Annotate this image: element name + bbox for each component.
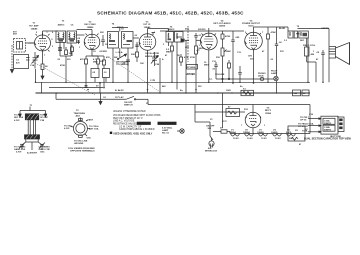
svg-text:R11: R11 — [280, 51, 285, 53]
wire between T4 boxes — [119, 28, 121, 32]
svg-text:.05: .05 — [212, 69, 216, 71]
svg-text:3: 3 — [246, 117, 248, 119]
dashed AVC line — [187, 26, 189, 62]
wire T3 drops — [59, 42, 61, 56]
AC plug P1 — [209, 138, 214, 149]
svg-text:A.C.: A.C. — [208, 147, 213, 150]
bus wire y89.5 — [49, 87, 103, 89]
svg-text:OF SPKR: OF SPKR — [298, 126, 308, 128]
tube V3 12BE6 — [139, 29, 156, 59]
svg-text:SEC C1A: SEC C1A — [14, 116, 24, 119]
svg-text:V3: V3 — [146, 21, 149, 23]
svg-text:10%: 10% — [248, 56, 252, 58]
svg-text:10K: 10K — [140, 63, 144, 65]
svg-text:330 680: 330 680 — [187, 74, 195, 76]
rod antenna T1 detail — [19, 105, 47, 150]
label V4 — [213, 19, 230, 27]
svg-text:470K: 470K — [271, 31, 277, 34]
wire antenna to V1 — [29, 42, 35, 44]
label T5 — [168, 27, 175, 32]
svg-text:.05: .05 — [316, 52, 320, 54]
svg-text:1: 1 — [79, 47, 81, 49]
tube V6 35W4 rectifier — [245, 105, 261, 134]
svg-text:R7 820K: R7 820K — [187, 67, 196, 69]
svg-text:12.6V: 12.6V — [275, 138, 281, 140]
svg-text:2: 2 — [52, 46, 54, 48]
svg-text:4: 4 — [260, 116, 262, 119]
svg-text:220: 220 — [67, 59, 71, 61]
svg-text:OSCILLATOR: OSCILLATOR — [145, 52, 159, 55]
capacitor C9 — [126, 59, 130, 61]
svg-text:C1B: C1B — [40, 120, 45, 122]
resistor R6 left of V3 — [131, 50, 139, 62]
svg-text:SWITCH: SWITCH — [124, 105, 133, 107]
svg-text:COIL VIEWED FROM END: COIL VIEWED FROM END — [68, 148, 95, 150]
svg-text:TO CHASSIS: TO CHASSIS — [116, 63, 129, 66]
svg-text:50C5: 50C5 — [286, 132, 292, 134]
resistor R14 at 104 — [103, 56, 105, 60]
svg-text:X1: X1 — [210, 119, 213, 121]
svg-text:MEG: MEG — [204, 65, 209, 67]
svg-text:C.7B: C.7B — [150, 80, 155, 82]
capacitor C4 — [77, 38, 81, 44]
svg-text:3.2: 3.2 — [284, 40, 288, 42]
svg-text:7: 7 — [44, 55, 46, 57]
extra wires and labels for density — [36, 30, 262, 94]
IF transformer T4 (box1) — [108, 32, 119, 49]
resistor R13 box above rectifier — [226, 106, 240, 117]
pin ticks V2 — [86, 34, 88, 36]
resistor R3 below V2 — [80, 56, 98, 88]
svg-text:L-10-A: L-10-A — [116, 51, 123, 54]
leads to capacitor box — [308, 118, 321, 133]
svg-text:ANT: ANT — [13, 33, 18, 36]
svg-text:C6: C6 — [93, 51, 97, 53]
capacitor C6 symbol — [101, 35, 105, 46]
svg-text:MEG: MEG — [93, 62, 98, 64]
svg-text:47: 47 — [165, 54, 168, 57]
svg-text:RESISTANCE VALUES: RESISTANCE VALUES — [113, 122, 138, 125]
svg-text:12BE6: 12BE6 — [257, 132, 264, 134]
labels capacitor box — [298, 114, 341, 138]
svg-text:6: 6 — [52, 32, 54, 34]
svg-text:PER VOLT METER AT 117 V.: PER VOLT METER AT 117 V. — [113, 117, 143, 120]
antenna loop L1 — [12, 39, 35, 70]
bus wire y93 — [36, 92, 311, 94]
IF transformer T5 (box2) — [175, 32, 184, 43]
svg-text:ON-OFF: ON-OFF — [124, 102, 133, 104]
svg-text:UNLESS OTHERWISE NOTED:: UNLESS OTHERWISE NOTED: — [113, 111, 146, 113]
wire bus V2 area — [35, 69, 37, 82]
dashed gang link — [33, 62, 95, 95]
svg-text:& R.F.: & R.F. — [14, 120, 20, 122]
svg-text:CAPACITORS ABOVE 1 IN MMFD: CAPACITORS ABOVE 1 IN MMFD — [119, 128, 155, 131]
svg-text:C16: C16 — [309, 114, 314, 116]
svg-text:22K: 22K — [100, 32, 104, 34]
svg-text:5: 5 — [36, 32, 38, 34]
label T3 — [58, 21, 75, 27]
svg-text:1ST I.F.: 1ST I.F. — [143, 24, 151, 26]
svg-text:12.6V: 12.6V — [233, 138, 239, 140]
field coil L2 — [305, 38, 317, 82]
svg-text:30MFD: 30MFD — [324, 123, 332, 125]
wire to pilot lamp — [216, 78, 274, 80]
svg-text:470: 470 — [80, 58, 84, 61]
svg-text:V6: V6 — [267, 108, 270, 110]
X2 box — [288, 126, 305, 141]
svg-text:.01: .01 — [198, 35, 202, 37]
capacitor C17 — [239, 74, 241, 82]
svg-text:12BA6: 12BA6 — [243, 131, 251, 134]
labels T1 detail — [14, 114, 50, 155]
label V1 — [29, 23, 53, 42]
scattered value labels — [30, 28, 319, 153]
svg-text:47: 47 — [316, 58, 319, 61]
svg-text:104V: 104V — [226, 89, 231, 92]
svg-text:1: 1 — [313, 51, 315, 53]
svg-text:T3: T3 — [62, 21, 65, 23]
svg-text:& R.F.: & R.F. — [64, 128, 70, 130]
resistor R1 below V1 — [41, 62, 48, 76]
svg-text:470K: 470K — [60, 64, 65, 67]
voltage labels on buses — [115, 80, 184, 99]
svg-text:V1: V1 — [33, 23, 36, 25]
volume control R10 — [215, 44, 231, 76]
svg-text:C5: C5 — [71, 25, 75, 27]
svg-text:AVC: AVC — [185, 28, 190, 31]
label V5 — [242, 20, 261, 27]
capacitor C8 left of V3 — [135, 42, 138, 50]
dial lamp — [162, 126, 184, 134]
wire T4 drops — [112, 48, 114, 82]
IF transformer T3 (box 1) — [56, 31, 66, 43]
svg-text:B+: B+ — [180, 90, 184, 92]
resistor X1 box on B- line — [241, 89, 254, 96]
svg-text:35V: 35V — [198, 86, 202, 88]
svg-text:VOLUME: VOLUME — [215, 74, 225, 76]
line 117VAC — [185, 77, 187, 94]
dual capacitor box C16 — [321, 116, 344, 134]
tube V1 12BA6 — [35, 33, 51, 62]
svg-text:OSC: OSC — [87, 138, 92, 140]
svg-text:C2: C2 — [16, 60, 20, 62]
svg-text:GANG C1B: GANG C1B — [39, 148, 50, 151]
svg-text:RECT.: RECT. — [265, 110, 272, 112]
svg-text:DUAL SECTION CAPACITOR TOP VIE: DUAL SECTION CAPACITOR TOP VIEW — [304, 137, 351, 140]
caption coil viewed — [68, 148, 95, 153]
svg-text:K=1000 Ω: K=1000 Ω — [137, 123, 148, 125]
svg-text:.02: .02 — [134, 35, 138, 37]
svg-text:NO. 51: NO. 51 — [162, 133, 170, 135]
capacitor C18 on B- segment — [85, 86, 88, 88]
svg-text:50MFD: 50MFD — [324, 130, 332, 132]
svg-text:.02 MFD: .02 MFD — [99, 51, 107, 53]
capacitor C15 near speaker — [316, 50, 325, 58]
svg-text:470K: 470K — [225, 35, 231, 38]
AC switch S1b — [206, 126, 215, 141]
label V2 — [84, 21, 96, 29]
label V3 — [143, 21, 159, 58]
phono jack J1 — [260, 77, 264, 81]
ground at bus — [99, 93, 102, 104]
svg-text:T2: T2 — [297, 26, 300, 28]
svg-text:5: 5 — [51, 39, 53, 41]
svg-text:LINE A.C. VOLTAGE.: LINE A.C. VOLTAGE. — [113, 119, 135, 122]
top rail above V3 V4 — [148, 28, 169, 30]
label field coil — [303, 45, 316, 47]
svg-text:VOLTAGES MEASURED WITH 20,000: VOLTAGES MEASURED WITH 20,000 OHMS — [113, 114, 161, 117]
svg-text:A=SHORT: A=SHORT — [27, 152, 38, 155]
svg-text:1: 1 — [46, 32, 48, 34]
svg-text:47: 47 — [299, 143, 302, 146]
svg-text:BLUE: BLUE — [279, 28, 285, 30]
svg-text:T4: T4 — [112, 23, 115, 26]
labels T6 detail — [64, 119, 100, 145]
svg-text:50C5: 50C5 — [248, 26, 254, 28]
capacitor C12 — [215, 62, 217, 65]
on-off switch S1 — [56, 96, 310, 106]
svg-text:C1A: C1A — [30, 64, 35, 67]
svg-text:PILOT: PILOT — [271, 71, 278, 73]
wire T5 drops — [168, 42, 170, 46]
svg-text:12AV6: 12AV6 — [219, 25, 226, 28]
svg-text:4.7K: 4.7K — [184, 56, 189, 59]
label BLUE — [279, 26, 329, 30]
svg-text:T2: T2 — [76, 110, 79, 112]
svg-text:C1B: C1B — [155, 64, 160, 66]
resistor R11 right of V5 — [267, 31, 277, 44]
svg-text:117V: 117V — [222, 121, 227, 123]
svg-text:ADJ: ADJ — [76, 115, 81, 118]
svg-text:V2: V2 — [89, 21, 92, 23]
ground below V1 — [41, 76, 44, 79]
grid cap C7 — [152, 32, 154, 35]
resistor R7 — [166, 42, 174, 56]
label T4 — [112, 23, 124, 55]
svg-text:12BA6: 12BA6 — [31, 28, 39, 31]
wire to rectifier — [195, 111, 245, 113]
notes text block — [110, 111, 177, 135]
capacitor C3a — [58, 48, 62, 50]
svg-text:470: 470 — [16, 61, 20, 64]
heater V5f — [286, 130, 296, 140]
capacitor C2 box — [14, 55, 30, 69]
svg-text:X2: X2 — [295, 130, 298, 132]
svg-text:3: 3 — [163, 44, 165, 46]
svg-text:B- 84.5V: B- 84.5V — [115, 89, 124, 92]
capacitor C5 under T3 — [58, 45, 62, 52]
svg-text:V4: V4 — [221, 19, 224, 22]
svg-text:84V: 84V — [162, 85, 166, 88]
pin ticks V1 — [36, 34, 38, 36]
pin ticks V4 — [202, 34, 204, 36]
title — [97, 11, 244, 16]
resistor R4 below V2 — [97, 56, 105, 69]
svg-text:DET.-1ST AUDIO: DET.-1ST AUDIO — [213, 22, 230, 25]
svg-text:OSC: OSC — [40, 152, 45, 154]
resistor R9 — [221, 31, 231, 44]
resistor R2 under T3 — [71, 45, 74, 56]
svg-text:47: 47 — [262, 50, 265, 53]
resistor R16 — [187, 65, 198, 70]
svg-text:S1: S1 — [103, 97, 106, 99]
svg-text:47K: 47K — [106, 56, 110, 59]
wire plug to chain — [194, 104, 196, 122]
svg-text:12BA6: 12BA6 — [229, 131, 237, 134]
diode CR1 — [181, 39, 190, 77]
trimmer C3 left — [19, 142, 26, 150]
wire T4 to V3 — [133, 37, 139, 39]
svg-text:12BE6: 12BE6 — [87, 27, 94, 29]
heater V4f — [271, 129, 282, 140]
trimmer C6 right — [38, 142, 45, 150]
svg-text:.05: .05 — [57, 59, 61, 61]
under-can resistor cluster — [65, 47, 73, 55]
svg-text:OPPOSITE TERMINALS: OPPOSITE TERMINALS — [70, 150, 95, 153]
svg-text:MEG: MEG — [199, 48, 204, 50]
variable capacitor C1B — [151, 52, 158, 66]
pin ticks V5 — [246, 33, 248, 35]
bus wire B- segment — [41, 82, 43, 93]
svg-text:SCHEMATIC DIAGRAM 451B, 451C,: SCHEMATIC DIAGRAM 451B, 451C, 452B, 452C… — [97, 11, 244, 16]
svg-text:USED ON MODEL 453B, 453C ONLY: USED ON MODEL 453B, 453C ONLY — [113, 132, 153, 135]
svg-text:V5: V5 — [250, 20, 253, 22]
svg-text:T.C.: T.C. — [209, 79, 213, 81]
svg-text:R.F. AMP: R.F. AMP — [29, 25, 39, 28]
svg-text:PRI: PRI — [296, 34, 300, 36]
svg-text:12.6V: 12.6V — [247, 138, 253, 140]
svg-text:OSC.CONV.: OSC.CONV. — [84, 24, 96, 26]
svg-text:CR1: CR1 — [185, 47, 190, 49]
heater V1f — [229, 130, 240, 140]
svg-text:SEC: SEC — [300, 40, 305, 42]
wire V4 to V5 grid — [233, 30, 244, 32]
svg-text:455KC: 455KC — [168, 28, 175, 31]
svg-text:ANT COIL: ANT COIL — [89, 127, 100, 130]
tube V5 50C5 — [245, 27, 263, 58]
oscillator coil T6 detail circle — [71, 110, 91, 138]
heater V2f — [243, 130, 254, 140]
svg-text:.05: .05 — [92, 72, 96, 74]
svg-text:ON-OFF: ON-OFF — [206, 126, 215, 128]
svg-text:CAPACITY/WATT: CAPACITY/WATT — [158, 122, 177, 125]
svg-text:117V AC: 117V AC — [115, 96, 124, 99]
svg-text:270K: 270K — [190, 57, 195, 59]
speaker LS1 — [329, 43, 350, 65]
caption dual capacitor — [304, 137, 351, 140]
svg-text:7: 7 — [262, 32, 264, 34]
resistor pair near output — [293, 90, 310, 96]
wire above V2 — [91, 30, 93, 32]
svg-text:68: 68 — [45, 66, 48, 68]
ground (antenna) — [10, 70, 13, 73]
wire top rail left — [42, 31, 44, 35]
resistor R17 — [228, 60, 230, 63]
svg-text:R13: R13 — [244, 109, 249, 111]
label V6 — [265, 108, 272, 115]
svg-text:1/2 W. CAPACITY OF: 1/2 W. CAPACITY OF — [119, 126, 142, 129]
svg-text:1: 1 — [199, 45, 201, 47]
svg-text:ANT: ANT — [89, 119, 94, 122]
svg-text:22K: 22K — [131, 54, 135, 56]
svg-text:INTERLOCK: INTERLOCK — [205, 151, 218, 153]
svg-text:1: 1 — [264, 125, 266, 127]
svg-text:455KC: 455KC — [58, 24, 65, 27]
switch SW1 diagonal — [119, 54, 127, 59]
svg-text:6.3V DIAL: 6.3V DIAL — [162, 126, 173, 129]
wire top rail right — [254, 26, 289, 28]
svg-text:0V: 0V — [96, 86, 99, 88]
junction dots on buses — [35, 82, 324, 94]
svg-text:35W4: 35W4 — [265, 112, 271, 115]
svg-text:12.6V: 12.6V — [261, 138, 267, 140]
svg-text:C13: C13 — [237, 52, 242, 54]
svg-text:.005: .005 — [235, 37, 240, 39]
svg-text:TRACKING: TRACKING — [74, 112, 86, 115]
vertical droppers — [99, 83, 101, 93]
svg-text:500K: 500K — [226, 51, 232, 53]
IF transformer T4 (box2) — [122, 32, 134, 49]
svg-text:C6: C6 — [105, 44, 109, 46]
tube V2 12BA6 — [84, 31, 100, 56]
heater V3f — [257, 130, 268, 140]
svg-text:GANG C1A: GANG C1A — [14, 148, 25, 151]
svg-text:LAMP: LAMP — [162, 129, 169, 132]
IF transformer T5 (box1) — [166, 32, 174, 43]
svg-text:SW: SW — [114, 57, 117, 59]
svg-text:4: 4 — [154, 31, 156, 34]
resistor R5 boxed pair — [91, 69, 110, 83]
svg-text:R10: R10 — [216, 57, 221, 59]
svg-text:A: A — [162, 58, 164, 61]
junction dots — [56, 82, 277, 94]
resistor R15 — [180, 54, 182, 57]
svg-text:C9: C9 — [121, 29, 125, 31]
tube V4 12AV6 — [200, 28, 217, 60]
svg-text:& R.F.: & R.F. — [16, 152, 22, 154]
svg-text:GROUND: GROUND — [74, 143, 84, 145]
svg-text:450: 450 — [311, 53, 315, 56]
svg-text:12AV6: 12AV6 — [271, 131, 278, 134]
svg-text:.01: .01 — [104, 72, 108, 74]
mid band extra labels — [13, 31, 266, 104]
wire T3 to V2 — [77, 34, 85, 36]
svg-text:.02: .02 — [279, 42, 283, 44]
svg-text:MEG: MEG — [166, 52, 171, 54]
svg-text:.02: .02 — [270, 59, 274, 61]
svg-text:.05: .05 — [77, 38, 81, 40]
capacitor C14 — [275, 31, 283, 56]
IF transformer T3 (box 2) — [67, 31, 77, 43]
output transformer T2 — [288, 27, 329, 46]
resistor R8 volume pot — [195, 40, 204, 60]
variable capacitor C1A — [32, 52, 39, 69]
svg-text:OF V6: OF V6 — [300, 120, 307, 122]
wire to V4 grid — [196, 39, 201, 41]
svg-text:47: 47 — [228, 106, 231, 109]
capacitor C13 — [231, 31, 240, 50]
pilot lamp I1 — [271, 71, 278, 81]
svg-text:7: 7 — [241, 125, 243, 127]
mid band extra components — [117, 54, 273, 82]
bus wire B+ y83 — [36, 81, 311, 83]
svg-text:TO ANT: TO ANT — [14, 114, 22, 117]
filament chain wire — [230, 133, 310, 135]
resistor R12 line — [213, 128, 230, 134]
capacitor C11 — [194, 29, 202, 40]
